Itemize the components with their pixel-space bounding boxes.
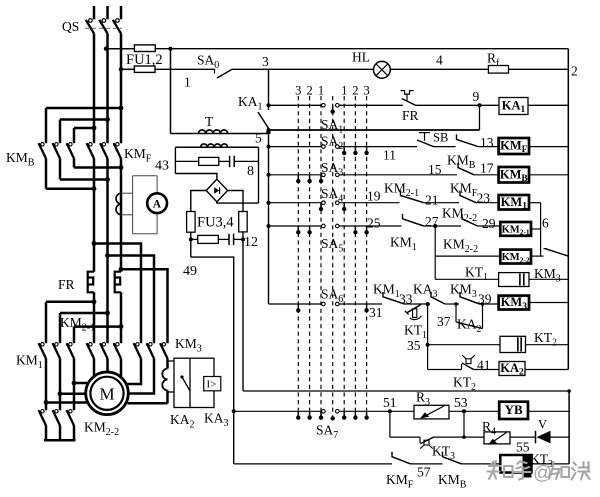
- brake coil YB: [499, 402, 528, 419]
- wire R4 to diode: [510, 436, 536, 438]
- wire KT3 coil to bus: [532, 463, 570, 465]
- wire Rf to bus 2: [509, 68, 569, 70]
- wire KMB bracket bottom 2: [60, 178, 108, 181]
- svg-text:35: 35: [407, 338, 421, 353]
- svg-text:5: 5: [255, 131, 262, 146]
- transformer T primary: [171, 133, 269, 135]
- cam contact SA1: [322, 104, 340, 108]
- svg-text:1: 1: [341, 84, 347, 98]
- timed contact KT1 in riser: [405, 302, 430, 370]
- wire KMB coil to bus: [529, 174, 568, 176]
- wire KT1 coil to bus: [529, 278, 568, 280]
- svg-text:9: 9: [473, 89, 480, 104]
- left control bus from node 5: [268, 128, 270, 304]
- wire KMB bracket bottom 1: [74, 166, 121, 169]
- wire KMB bracket top 3: [74, 127, 94, 130]
- cam contact SA6: [322, 302, 340, 306]
- SA controller dashed position lines: [298, 96, 366, 420]
- wire row KA1 coil: [269, 104, 403, 106]
- relay KA2 KA3 block: [168, 358, 215, 407]
- svg-text:T: T: [205, 114, 214, 129]
- svg-text:31: 31: [369, 305, 383, 320]
- SA5 closed dots: [296, 226, 369, 235]
- thermal relay FR heater L3: [115, 272, 121, 293]
- wire KMB bracket top 2: [60, 118, 108, 121]
- svg-text:17: 17: [480, 161, 494, 176]
- svg-text:15: 15: [428, 162, 442, 177]
- contact KM3 row7: [460, 292, 480, 304]
- svg-text:39: 39: [478, 292, 492, 307]
- wire tee L2 to KM3 bank: [108, 256, 155, 344]
- svg-text:1: 1: [318, 84, 324, 98]
- svg-text:2: 2: [571, 64, 578, 79]
- contactor KM1 main contacts: [39, 302, 74, 410]
- wire KM2-1 to motor: [94, 359, 121, 377]
- svg-text:13: 13: [480, 135, 494, 150]
- wire row SA7: [234, 410, 414, 412]
- wire KA1 coil to bus: [528, 104, 568, 106]
- SA6 closed dots: [296, 304, 369, 312]
- contactor coil KM1: [499, 195, 529, 210]
- wire phase L1 middle: [93, 172, 96, 272]
- svg-text:6: 6: [542, 216, 549, 231]
- overcurrent relay KA3 I> box: [204, 377, 221, 391]
- bus 6 vertical: [540, 203, 542, 256]
- SA4 closed dots: [319, 203, 347, 212]
- riser 51 node: [389, 411, 391, 437]
- contactor coil KMB: [499, 167, 529, 183]
- time relay coil KT1: [499, 273, 529, 287]
- svg-text:57: 57: [417, 465, 431, 480]
- motor M: [86, 372, 129, 415]
- wire KM1 coil to bus 6: [529, 202, 541, 204]
- wire rectifier left output: [191, 191, 206, 212]
- wire row KM1 coil: [269, 202, 400, 204]
- wire row 35 KT2 coil: [428, 344, 500, 346]
- wire riser to T primary: [170, 49, 172, 134]
- cam contact SA7: [322, 410, 340, 414]
- time relay coil KT3: [500, 455, 531, 478]
- wire node 3 drop with KA1 contact: [258, 69, 269, 128]
- cam contact SA4: [322, 201, 340, 205]
- wire KM3 pole2 to motor: [129, 359, 154, 394]
- svg-text:YB: YB: [505, 402, 523, 417]
- diode V: [536, 431, 551, 444]
- contactor KM3 main contacts: [134, 343, 168, 359]
- lamp HL: [374, 61, 391, 78]
- wire tee to KM1 pole2: [60, 312, 108, 315]
- contact KM2-2 NC row6: [462, 214, 478, 226]
- wire rectifier right output: [228, 191, 243, 212]
- svg-text:41: 41: [477, 358, 491, 373]
- resistor-capacitor row 12: [189, 232, 245, 257]
- resistor R3: [414, 405, 449, 419]
- wire KMB to KT3 coil: [462, 463, 501, 465]
- wire row KMB coil: [269, 174, 458, 176]
- svg-text:4: 4: [436, 53, 443, 68]
- svg-text:3: 3: [262, 54, 269, 69]
- svg-text:33: 33: [399, 292, 413, 307]
- svg-text:3: 3: [295, 84, 301, 98]
- timed contact KT3: [420, 437, 434, 449]
- svg-text:1: 1: [184, 75, 191, 90]
- ammeter A: [147, 193, 167, 213]
- fuse FU4: [239, 212, 248, 232]
- wire YB to bus: [528, 410, 569, 412]
- timed contact KT2 NC: [462, 355, 500, 369]
- wire row 53: [449, 410, 499, 412]
- switch SA0: [215, 69, 269, 78]
- wire tee L3 to KM3 bank: [121, 269, 168, 343]
- svg-text:V: V: [538, 418, 547, 432]
- pushbutton SB: [417, 133, 456, 147]
- wire row KT1 coil: [435, 278, 498, 280]
- wire secondary right leg: [258, 147, 260, 203]
- wire KMB bracket bottom 3: [46, 187, 94, 190]
- thermal contact FR: [401, 91, 480, 106]
- contactor KMF main contacts: [87, 143, 121, 172]
- SA3 closed dots: [296, 175, 323, 184]
- svg-text:37: 37: [437, 314, 451, 329]
- wire row KM2-2 coil: [435, 255, 500, 257]
- riser 53 node: [463, 411, 465, 437]
- wire diode to bus: [551, 436, 570, 438]
- wire tee L1 to KM3 bank: [94, 244, 141, 344]
- wire KM2-2 coil to bus6: [531, 255, 544, 257]
- bridge rectifier: [206, 179, 227, 202]
- wire KM2-2 shorting bar: [44, 439, 76, 442]
- fuse FU1: [106, 48, 134, 50]
- labels positions 3 2 1: [295, 84, 324, 98]
- SA7 closed dots: [296, 411, 369, 420]
- wire phase L1 lower: [93, 292, 96, 343]
- svg-text:21: 21: [425, 193, 439, 208]
- svg-text:A: A: [153, 199, 162, 211]
- wire riser node 9: [479, 105, 481, 130]
- contact KMF NC: [458, 163, 474, 175]
- contactor coil KM3: [499, 296, 529, 310]
- wire KMB bracket top 1: [46, 107, 121, 110]
- contact KM2-2 NC row5: [460, 191, 476, 203]
- QS linkage dashed: [85, 27, 122, 29]
- svg-text:I>: I>: [207, 379, 217, 391]
- wire 57 segment: [411, 463, 443, 465]
- watermark zhihu: [488, 461, 531, 480]
- wire KM2-1 coil to bus 6: [531, 228, 541, 230]
- svg-text:SB: SB: [433, 131, 448, 145]
- svg-text:2: 2: [306, 84, 312, 98]
- cam contact SA2: [322, 145, 340, 149]
- contactor coil KMF: [499, 138, 529, 154]
- svg-text:43: 43: [155, 159, 169, 174]
- svg-text:QS: QS: [62, 19, 79, 34]
- contactor coil KM2-1: [500, 222, 531, 236]
- wire phase L2 vertical: [106, 34, 109, 144]
- contact KA2 bypass: [454, 302, 484, 328]
- svg-text:FR: FR: [58, 277, 75, 292]
- wire line 1 with SA0: [155, 68, 215, 70]
- contact KMB NC: [457, 134, 479, 146]
- wire row KMF coil: [269, 146, 418, 148]
- wire row 51 top: [243, 390, 569, 392]
- bus 2 right vertical upper: [567, 49, 569, 370]
- wire motor lead left3: [46, 401, 89, 404]
- wire phase L3 lower: [120, 292, 123, 343]
- time relay coil KT2: [500, 336, 526, 352]
- disconnect switch QS: [86, 6, 121, 34]
- contactor KM2-2 main contacts: [39, 410, 74, 441]
- SA1 closed position dot: [331, 105, 335, 114]
- svg-text:FU3,4: FU3,4: [197, 215, 234, 231]
- svg-text:11: 11: [383, 148, 396, 163]
- contactor KM2-1 main contacts: [87, 343, 121, 359]
- wire KT3 to node 53: [434, 436, 465, 438]
- wire motor lead left1: [74, 382, 89, 385]
- svg-text:HL: HL: [352, 50, 370, 65]
- wire HL to Rf: [390, 68, 488, 70]
- wire node3 to HL row: [269, 68, 374, 70]
- current transformer for ammeter: [116, 193, 121, 215]
- svg-text:53: 53: [454, 395, 468, 410]
- wire phase L3 vertical: [120, 34, 123, 144]
- wire tee to KM1 pole3: [74, 325, 121, 328]
- node 5 dot: [266, 130, 271, 135]
- resistor Rf: [488, 66, 508, 74]
- wire secondary left leg: [174, 147, 176, 173]
- wire KMF coil to bus: [529, 146, 568, 148]
- cam contact SA5: [322, 224, 340, 228]
- bus 2 right vertical lower: [568, 391, 570, 464]
- wire phase L2 middle: [106, 172, 109, 343]
- wire tee to KM1 pole1: [46, 301, 94, 304]
- wire phase L3 middle: [120, 172, 123, 272]
- resistor-capacitor row 43-8: [175, 156, 258, 167]
- svg-text:FU1,2: FU1,2: [126, 52, 163, 68]
- contactor coil KM2-2: [500, 250, 531, 264]
- wire row 57: [234, 463, 392, 465]
- wire row KA1 to coil: [480, 104, 499, 106]
- contact KA3 row7: [431, 292, 445, 304]
- wire row 55: [390, 436, 420, 438]
- wire top line to bus 2: [155, 48, 568, 50]
- cam contact SA3: [322, 173, 340, 177]
- svg-text:49: 49: [183, 264, 197, 279]
- wire row 41 KA2 coil: [428, 369, 462, 371]
- contact KMB bottom: [443, 452, 462, 464]
- svg-text:8: 8: [247, 164, 254, 179]
- SA2 closed dots: [342, 147, 369, 155]
- svg-text:3: 3: [363, 84, 369, 98]
- wire KM3 pole3 with CT to motor: [128, 359, 168, 404]
- labels positions 1 2 3: [341, 84, 370, 98]
- svg-text:25: 25: [367, 216, 381, 231]
- transformer T secondary: [175, 146, 258, 148]
- wire FU4 down to row 51: [242, 232, 244, 391]
- svg-text:2: 2: [352, 84, 358, 98]
- wire KT2 coil to bus: [526, 344, 569, 346]
- fuse FU2: [121, 68, 134, 70]
- svg-text:29: 29: [482, 216, 496, 231]
- wire row 31 KM3: [269, 303, 383, 305]
- svg-text:55: 55: [516, 440, 530, 455]
- relay coil KA1: [499, 98, 528, 115]
- SA7 center dot: [331, 416, 335, 420]
- wire motor lead left2: [60, 392, 86, 395]
- wire row 2 from node 5: [269, 129, 480, 131]
- thermal relay FR heater L1: [88, 272, 94, 293]
- svg-text:FR: FR: [402, 108, 419, 123]
- wire KA2 coil to bus: [525, 369, 568, 371]
- wire 49 down to bottom rows: [191, 257, 234, 464]
- contact KM2-1: [401, 191, 424, 203]
- svg-text:12: 12: [244, 235, 258, 250]
- wire KM3 coil to bus: [529, 302, 568, 304]
- contact KM1 row6: [403, 214, 424, 226]
- svg-text:19: 19: [367, 189, 381, 204]
- wire KM3 pole1 to motor: [128, 359, 142, 385]
- wire row KM2-1 coil: [269, 225, 402, 227]
- contact KMF bottom: [392, 452, 411, 464]
- contact KM3 to bus 2: [544, 249, 569, 257]
- svg-text:23: 23: [477, 191, 491, 206]
- ammeter loop wires: [121, 176, 157, 234]
- resistor R4: [484, 432, 510, 444]
- fuse FU3: [187, 212, 196, 233]
- wire to rectifier top: [175, 174, 217, 180]
- contactor KMB main contacts: [39, 108, 74, 189]
- contact KM1 row7: [383, 292, 405, 304]
- relay coil KA2: [499, 362, 525, 376]
- wire phase L1 vertical: [93, 34, 96, 144]
- wire to rectifier bottom: [217, 202, 259, 203]
- svg-text:51: 51: [383, 395, 397, 410]
- svg-text:M: M: [100, 385, 115, 404]
- riser row6 to KM2-2 coil: [434, 226, 436, 279]
